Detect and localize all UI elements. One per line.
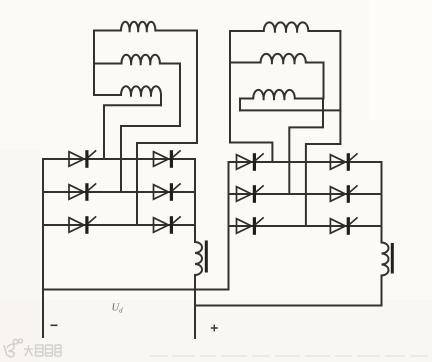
wire left reactor lower lead and positive terminal <box>194 275 196 338</box>
wire negative bus <box>43 289 229 291</box>
thyristor T12 <box>330 217 357 235</box>
wire zigzag long link <box>240 109 340 111</box>
wire L6 left drop <box>239 99 241 111</box>
wire left bridge positive rail <box>194 159 196 242</box>
inductor L3 (left group bottom coil) <box>94 86 161 97</box>
wire left bridge row 2 <box>43 191 195 193</box>
wire phase e step <box>289 99 323 195</box>
wire right bridge row 1 <box>229 161 382 163</box>
caption remnant strip <box>150 355 428 357</box>
thyristor T5 <box>154 183 181 201</box>
inductor L4 (right group top coil) <box>230 22 340 32</box>
inductor L8 (right smoothing reactor winding) <box>382 243 389 276</box>
terminal plus sign <box>211 325 218 332</box>
inductor L7 (left smoothing reactor winding) <box>195 242 202 275</box>
inductor L1 (left group top coil) <box>94 22 197 33</box>
inductor L5 (right group middle coil) <box>230 54 324 64</box>
thyristor T1 <box>69 150 96 168</box>
thyristor T9 <box>237 217 264 235</box>
thyristor T4 <box>154 150 181 168</box>
terminal minus sign <box>51 324 58 326</box>
wire left bridge negative rail <box>42 159 44 337</box>
thyristor T10 <box>330 153 357 171</box>
wire phase f step <box>306 144 341 226</box>
wire right bridge row 2 <box>229 193 382 195</box>
wire phase c step <box>137 143 197 225</box>
subtle paper tint patches <box>0 300 432 362</box>
thyristor T11 <box>330 185 357 203</box>
inductor L6 (right group bottom coil) <box>240 90 323 100</box>
node N2 right zigzag left vertical <box>229 31 231 143</box>
wire L1 right drop <box>196 31 198 144</box>
wire phase a step <box>104 105 161 159</box>
watermark logo <box>4 339 23 357</box>
wire left bridge row 3 <box>43 224 195 226</box>
thyristor T3 <box>69 216 96 234</box>
core bar of right reactor <box>391 243 394 274</box>
wire L4 right drop <box>339 31 341 144</box>
wire phase b step <box>121 126 180 192</box>
thyristor T7 <box>237 153 264 171</box>
core bar of left reactor <box>205 241 208 273</box>
node N1 left star vertical <box>93 31 95 96</box>
inductor L2 (left group middle coil) <box>94 55 180 66</box>
wire phase d step <box>230 143 272 163</box>
wire left bridge row 1 <box>43 158 195 160</box>
wire right bridge row 3 <box>229 225 382 227</box>
wire right reactor lower lead <box>195 276 382 306</box>
watermark characters <box>24 345 61 356</box>
wire L3 right drop <box>160 95 162 105</box>
thyristor T8 <box>237 185 264 203</box>
wire right bridge positive rail <box>381 162 383 243</box>
wire L5 right drop <box>323 63 325 99</box>
wire right bridge negative rail <box>228 162 230 290</box>
wire L2 right drop <box>179 64 181 127</box>
thyristor T2 <box>69 183 96 201</box>
thyristor T6 <box>154 216 181 234</box>
